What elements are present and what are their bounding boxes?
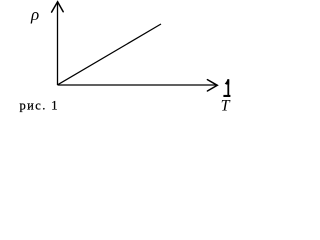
y-axis arrowhead (52, 2, 64, 12)
label 1/T fraction bar (223, 95, 230, 97)
x-axis line (58, 84, 217, 86)
y-axis line (57, 3, 59, 85)
x-axis arrowhead (207, 80, 217, 91)
graph line (rho vs 1/T) (58, 24, 161, 85)
svg-text:ρ: ρ (30, 5, 39, 24)
label 1/T numerator: digit 1 stem (227, 79, 229, 95)
svg-text:рис. 1: рис. 1 (20, 98, 59, 112)
label 1/T numerator: digit 1 flag (225, 79, 230, 84)
svg-text:T: T (221, 98, 231, 115)
